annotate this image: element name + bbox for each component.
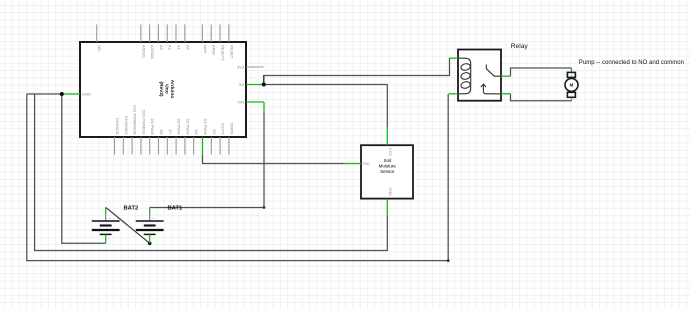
svg-text:-: - bbox=[108, 237, 109, 241]
wire relay NO contact to pump plus bbox=[511, 68, 572, 76]
svg-text:D3 PWM: D3 PWM bbox=[203, 119, 208, 135]
pin minus bbox=[571, 99, 573, 101]
svg-text:D5 PWM: D5 PWM bbox=[185, 119, 190, 135]
pin NO bbox=[501, 75, 511, 77]
junction dot relay bottom corner bbox=[447, 259, 450, 262]
coil outline bbox=[458, 58, 471, 94]
wire 5V junction up-branch to relay coil top bbox=[264, 58, 450, 84]
pin coil bottom bbox=[449, 93, 458, 95]
svg-text:D6 PWM: D6 PWM bbox=[177, 119, 182, 135]
pin RESET2 bbox=[219, 25, 221, 43]
side pin labels bbox=[82, 64, 245, 104]
wire BAT1 plus up and right to VIN drop bbox=[150, 207, 264, 209]
pin 3V3 bbox=[246, 66, 264, 68]
pin minus (bottom) bbox=[149, 234, 151, 243]
svg-text:+: + bbox=[571, 74, 573, 78]
pin D3 PWM (connected) bbox=[202, 137, 204, 155]
pin plus (top) bbox=[105, 207, 107, 213]
battery BAT2 bbox=[92, 205, 138, 243]
pin A2 bbox=[166, 25, 168, 43]
Arduino Uno (Rev3) bbox=[64, 25, 264, 155]
svg-text:ioref: ioref bbox=[203, 45, 208, 54]
pin AREF bbox=[210, 25, 212, 43]
svg-text:VIN: VIN bbox=[237, 99, 244, 104]
pin GND bbox=[386, 199, 388, 216]
pin A3 bbox=[157, 25, 159, 43]
bottom pins D13..D0 bbox=[114, 137, 116, 155]
svg-text:D11 PWM/MOSI: D11 PWM/MOSI bbox=[133, 105, 138, 134]
svg-text:Pump -- connected to NO and co: Pump -- connected to NO and common bbox=[579, 60, 684, 66]
svg-text:D0/RX: D0/RX bbox=[229, 123, 234, 135]
armature arrow bbox=[483, 85, 501, 94]
svg-text:D9 PWM: D9 PWM bbox=[150, 119, 155, 135]
wire D3 to sensor SIG bbox=[203, 155, 344, 164]
wire GND net: Arduino GND left to junction and far-left drop bbox=[27, 93, 64, 95]
pin SIG bbox=[344, 163, 361, 165]
svg-text:3V3: 3V3 bbox=[237, 64, 245, 69]
svg-text:Soil: Soil bbox=[384, 158, 392, 163]
svg-text:D4: D4 bbox=[194, 129, 199, 135]
wire GND second vertical + bottom run to sensor GND bbox=[35, 94, 388, 251]
pin ioref bbox=[201, 25, 203, 43]
wire relay common to pump minus bbox=[511, 94, 572, 101]
pin coil top bbox=[449, 57, 458, 59]
top pin labels bbox=[97, 45, 234, 61]
svg-text:Relay: Relay bbox=[511, 43, 529, 50]
svg-text:GND: GND bbox=[82, 91, 91, 96]
bottom pin labels bbox=[115, 105, 234, 135]
svg-text:RESET2: RESET2 bbox=[221, 45, 226, 61]
wire VIN vertical drop bbox=[263, 102, 265, 208]
svg-text:AREF: AREF bbox=[212, 45, 217, 56]
pin RESET bbox=[228, 25, 230, 43]
junction dot 5V bbox=[262, 83, 266, 87]
svg-text:A5/SCL: A5/SCL bbox=[141, 45, 146, 60]
junction dot GND bbox=[60, 92, 64, 96]
junction dot BAT1 top corner bbox=[263, 206, 266, 209]
svg-text:M: M bbox=[570, 83, 574, 88]
pin 5V bbox=[246, 84, 264, 86]
svg-text:+: + bbox=[108, 217, 110, 221]
svg-text:D2: D2 bbox=[212, 129, 217, 135]
svg-text:BAT1: BAT1 bbox=[168, 205, 183, 211]
svg-text:SIG: SIG bbox=[363, 161, 370, 166]
pin A1 bbox=[175, 25, 177, 43]
wire BAT2 plus to BAT1 minus (series diagonal) bbox=[106, 207, 150, 243]
pin plus bbox=[571, 68, 573, 72]
svg-text:D10 PWM/SS: D10 PWM/SS bbox=[141, 110, 146, 135]
svg-text:5V: 5V bbox=[239, 82, 244, 87]
battery BAT1 bbox=[136, 205, 183, 243]
pin N/C bbox=[96, 25, 98, 43]
pump motor M bbox=[565, 60, 684, 101]
svg-text:BAT2: BAT2 bbox=[124, 205, 139, 211]
Soil Moisture Sensor bbox=[344, 127, 413, 216]
wire GND junction drop to BAT2 minus bbox=[62, 94, 106, 243]
svg-text:-: - bbox=[571, 94, 572, 98]
svg-text:GND: GND bbox=[388, 187, 393, 196]
pin VCC bbox=[386, 127, 388, 145]
svg-text:A2: A2 bbox=[168, 45, 173, 51]
pin GND bbox=[64, 93, 80, 95]
pin A4/SDA bbox=[149, 25, 151, 43]
pin common bbox=[501, 93, 511, 95]
svg-text:A3: A3 bbox=[159, 45, 164, 51]
plates bbox=[92, 220, 120, 222]
switch contact bbox=[486, 65, 501, 77]
wire 5V right-branch to sensor VCC bbox=[264, 85, 388, 128]
svg-text:A0: A0 bbox=[185, 45, 190, 51]
svg-text:RESET: RESET bbox=[229, 45, 234, 59]
svg-text:D12/MISO: D12/MISO bbox=[124, 116, 129, 135]
svg-text:-: - bbox=[152, 237, 153, 241]
pin minus (bottom) bbox=[105, 234, 107, 243]
coil loops bbox=[460, 63, 471, 71]
svg-text:D8: D8 bbox=[159, 129, 164, 135]
svg-text:Moisture: Moisture bbox=[379, 163, 397, 168]
pin A0 bbox=[184, 25, 186, 43]
wire GND far-left vertical + bottom run to relay coil bottom bbox=[27, 94, 448, 261]
svg-text:D13/SCK: D13/SCK bbox=[115, 118, 120, 135]
svg-text:D7: D7 bbox=[168, 129, 173, 135]
plates bbox=[136, 220, 164, 222]
svg-text:A4/SDA: A4/SDA bbox=[150, 45, 155, 60]
brush top bbox=[567, 72, 575, 77]
junction dot BAT1 minus / diagonal bbox=[148, 242, 152, 246]
motor body bbox=[565, 78, 578, 91]
pin VIN bbox=[246, 101, 264, 103]
svg-text:Sensor: Sensor bbox=[380, 169, 395, 174]
pin A5/SCL bbox=[140, 25, 142, 43]
pin plus (top) bbox=[149, 207, 151, 213]
svg-text:+: + bbox=[152, 217, 154, 221]
relay bbox=[449, 43, 529, 101]
svg-text:D1/TX: D1/TX bbox=[221, 123, 226, 135]
svg-text:A1: A1 bbox=[177, 45, 182, 51]
svg-text:N/C: N/C bbox=[97, 45, 102, 52]
svg-text:VCC: VCC bbox=[388, 148, 393, 157]
brush bottom bbox=[567, 92, 575, 97]
